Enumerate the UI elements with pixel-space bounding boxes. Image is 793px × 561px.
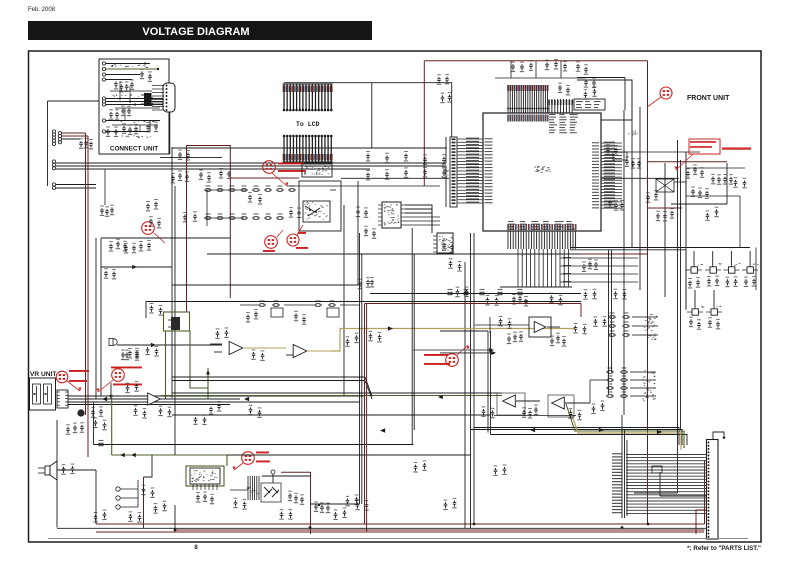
cluster khaki junction [345, 331, 381, 347]
IC U1 inside labels left [485, 138, 493, 203]
cluster front unit G [646, 177, 747, 221]
opamp U9 [503, 395, 540, 407]
cluster right of U1 B [625, 156, 641, 168]
wire J6 bus [56, 163, 388, 169]
opamp U5 [268, 345, 330, 358]
cluster x200 y410 [193, 401, 261, 425]
wire green connect [106, 68, 158, 70]
IC U2 regulator [378, 202, 405, 228]
cluster opamp U4 parts [215, 327, 264, 360]
svg-text:VOLTAGE DIAGRAM: VOLTAGE DIAGRAM [142, 26, 249, 38]
key group K5 [687, 306, 704, 330]
maroon pair x365 [365, 304, 367, 533]
IC U1 bottom bus [500, 249, 638, 287]
connect unit label [110, 146, 158, 153]
transformer T1 [141, 93, 152, 106]
cluster bottom-center B [314, 502, 330, 514]
power rail maroon opamp [474, 233, 581, 524]
wire long y455-ext [227, 454, 470, 456]
jack J10 [109, 339, 222, 361]
cluster opamp U6 parts [125, 381, 171, 418]
red annot af-level circle [96, 367, 142, 393]
connector J9 wires [612, 453, 707, 513]
cluster mid y170 [171, 168, 231, 183]
opamp U10 [552, 397, 590, 409]
wire vertical pair x610 [609, 250, 612, 394]
wire connect rows [106, 64, 150, 80]
page number [194, 545, 198, 551]
cluster bottom-center C [345, 494, 358, 506]
potentiometer VR1 [33, 384, 41, 404]
power rail maroon mid [187, 146, 231, 313]
cluster x368 y283 [358, 277, 374, 289]
key group K6 [706, 306, 722, 330]
backlight driver inner [303, 201, 330, 222]
connector CN right [163, 83, 175, 154]
green loop arrows [120, 453, 136, 457]
connector J9 bottom wires [656, 523, 705, 525]
IC U3 small [433, 233, 453, 253]
maroon y303 [365, 303, 582, 305]
transformer T2 comb [247, 476, 260, 500]
wire long vertical C [639, 107, 641, 290]
wire above U1 [495, 61, 585, 78]
resistor row y293 [446, 289, 524, 295]
VR unit box [30, 378, 56, 410]
IC U1 part label [534, 166, 550, 173]
opamp U8 [534, 322, 560, 333]
component row y305 [240, 300, 360, 317]
potentiometer VR2 [44, 384, 52, 404]
red annot busy circle [263, 230, 283, 252]
transistor Q1 [78, 406, 103, 417]
connect unit component cluster A [114, 79, 134, 92]
cluster right of U1 C [608, 198, 624, 211]
power rail maroon frontunit [648, 162, 728, 208]
wire connect mid bus [106, 99, 164, 105]
connector J4 pin [102, 130, 105, 133]
IC U1 inside labels bottom [508, 221, 575, 230]
cluster bottom-center D [279, 509, 292, 520]
key group K1 [686, 264, 703, 288]
resistor rows right [608, 312, 658, 339]
svg-text:*; Refer to "PARTS LIST.": *; Refer to "PARTS LIST." [687, 545, 761, 552]
cluster below VR [66, 418, 107, 435]
khaki signal line [330, 326, 575, 351]
cluster right of U1 D [686, 164, 704, 178]
cap grid mid [366, 151, 446, 180]
connector jack J8 [271, 470, 275, 483]
wire long vertical B [631, 80, 633, 247]
cluster right gap of U1 top [584, 77, 596, 88]
wire key bus [570, 248, 750, 309]
connect unit junction dots [119, 62, 146, 105]
red annot power circle [56, 370, 89, 391]
IC X2 box [574, 99, 605, 110]
wire bottom left risers [57, 420, 175, 530]
IC U1 bottom comb [507, 224, 576, 249]
signal bundle green [161, 393, 502, 396]
connector VR [57, 390, 68, 408]
wire long y415 [172, 415, 490, 455]
date label [28, 7, 56, 13]
IC U1 inside labels right [592, 142, 599, 208]
wire y238 [96, 238, 230, 399]
power rail maroon top long [424, 61, 647, 186]
wire backlight chain [207, 190, 336, 226]
cluster above X2 [558, 83, 597, 100]
wire U8 left [475, 317, 529, 333]
IC U1 main body [483, 113, 601, 231]
cluster bottom-left edge [93, 510, 106, 523]
cluster mid area B [145, 345, 158, 357]
wire left feed [48, 101, 100, 186]
wire long vertical A [623, 110, 625, 415]
red annot sp circle [232, 452, 270, 471]
signal bundle green right [566, 404, 684, 448]
transistor pair Q2 Q3 [261, 483, 281, 502]
wire y301 long [146, 302, 581, 319]
wire front unit feeds [622, 152, 745, 196]
IC U1 top pin comb2 [548, 99, 573, 113]
green arrow mid [438, 395, 443, 399]
connector To-LCD lower [283, 135, 333, 162]
connector J5 block [52, 130, 61, 146]
signal bundle right blacks [471, 428, 688, 446]
connect unit label smudges [111, 64, 155, 138]
power rail maroon right vertical [647, 61, 649, 525]
red annot 5-6 circle [648, 87, 672, 107]
cluster right of U1 A [606, 144, 618, 155]
key group K2 [705, 263, 722, 287]
cluster near U2 [356, 207, 376, 239]
wire J9 mid join [652, 466, 707, 496]
green amp box [186, 466, 224, 486]
speaker SP1 [38, 461, 57, 480]
arrow down mid [109, 383, 113, 399]
IC U7 audio amp [190, 468, 220, 490]
component chain backlight B [204, 207, 301, 219]
parts list note [687, 545, 761, 552]
cluster mid-bottom A [413, 460, 426, 472]
power rail maroon bottom bus A [96, 523, 705, 525]
wire y148 long [172, 147, 447, 149]
wire J5 out [62, 133, 88, 139]
cluster top-left of U1 [437, 74, 452, 103]
key group K3 [724, 263, 741, 287]
cluster speaker parts [61, 464, 74, 475]
cluster mid-left A [109, 239, 127, 252]
cluster under J6 [100, 169, 114, 217]
wire mid box [172, 147, 358, 415]
olive box G1 [164, 312, 190, 331]
cluster center C [549, 293, 562, 306]
wire pair x412 [412, 228, 414, 445]
gray bus y538 [48, 538, 748, 540]
cluster right rows feed [593, 316, 606, 327]
wire x93 drop [94, 402, 414, 446]
wire pair x360 [311, 233, 362, 506]
cluster bus right labels [563, 257, 598, 282]
IC U1 inside labels top-right [549, 114, 578, 133]
red annot tx circle [287, 225, 308, 249]
IC U1 right pins [601, 142, 622, 209]
bus bottom black A [57, 527, 707, 529]
wire lcd-top feed [284, 83, 452, 149]
wire tx y350 [413, 348, 494, 352]
signal bundle khaki right [570, 409, 681, 450]
cluster mid-left E [146, 199, 158, 211]
power rail maroon vertical left [86, 133, 89, 457]
cluster bottom extra [333, 500, 368, 520]
wire y157 [160, 157, 222, 159]
power rail maroon amp box [144, 472, 311, 534]
connector J3 pin [102, 119, 105, 122]
signal bundle main [68, 396, 365, 405]
IC U1 left pins [457, 138, 483, 203]
IC U1 top pin comb [507, 85, 549, 122]
connector J9 hook [713, 432, 725, 440]
cluster mid-left D [149, 211, 197, 228]
connector CN-left-of-U1 [441, 137, 457, 207]
cluster right of U1 F [691, 186, 709, 198]
connector J1 pins [102, 62, 105, 81]
opamp U8 box [529, 317, 551, 337]
power rail maroon right mid [570, 253, 648, 255]
wire long vertical F [470, 233, 472, 528]
connector To-LCD upper [283, 84, 333, 111]
box lower-right x488 [440, 331, 491, 435]
wire speaker [57, 469, 96, 471]
wire U9 box [494, 393, 576, 417]
svg-text:VR UNIT: VR UNIT [30, 371, 56, 378]
wire U1 right-top jog [577, 78, 632, 121]
cluster phones parts [128, 485, 166, 523]
wire bottom-center [230, 476, 310, 490]
red annot box radio [674, 139, 751, 170]
wire connect low [106, 121, 160, 132]
cluster mid-left C [104, 268, 116, 279]
cluster mid-bottom C [493, 464, 506, 475]
capacitor row above U1 [511, 59, 588, 75]
cluster bottom-center A [288, 491, 304, 505]
cluster under U3 [442, 240, 469, 297]
svg-text:Feb. 2008: Feb. 2008 [28, 7, 56, 13]
red annot backlight text [272, 163, 306, 187]
wire right edge verticals [740, 196, 756, 290]
cluster left small [79, 138, 93, 150]
cluster U8 parts [498, 316, 586, 347]
label FRONT UNIT [687, 95, 730, 102]
connect unit component cluster C [122, 123, 138, 135]
svg-text:FRONT UNIT: FRONT UNIT [687, 95, 730, 102]
red annot backlight circle [263, 161, 276, 174]
front unit box lines [671, 163, 727, 204]
cluster under audio [196, 492, 247, 510]
component chain backlight A [204, 185, 296, 204]
cluster center E [613, 289, 626, 300]
cluster y305 drops [246, 309, 306, 325]
wire long vertical D [678, 140, 681, 430]
bus bottom maroon B [96, 531, 704, 533]
connector phones [116, 480, 138, 509]
wire maroon connector risers [696, 510, 707, 534]
connector J9 bus [622, 415, 627, 518]
svg-text:CONNECT UNIT: CONNECT UNIT [110, 146, 158, 153]
crystal X1 [656, 179, 674, 192]
power rail maroon backlight [230, 177, 299, 179]
cluster right of U1 E [711, 174, 733, 185]
wire y267 arrow [101, 265, 172, 269]
wires connect to CN [152, 86, 164, 111]
wire U2 fanout [405, 205, 440, 233]
cluster U9 parts [481, 401, 604, 421]
red annot circle mid-left [142, 222, 165, 243]
wire y178 right [341, 163, 679, 297]
cluster mid-left B [124, 240, 151, 253]
opamp U6 [148, 393, 172, 405]
wire J7 out [56, 185, 96, 189]
connect unit cluster D [106, 69, 158, 137]
title bar [28, 21, 372, 40]
green loop [112, 455, 227, 466]
cluster maroon corner [178, 150, 190, 161]
connector J9 pins [708, 442, 710, 538]
connector J2 pins [102, 97, 105, 106]
wire olive drop [166, 331, 210, 399]
connect unit box [99, 59, 169, 154]
wire J9 upper join [634, 430, 678, 493]
connector J9 body [707, 440, 719, 540]
key group K4 [742, 264, 759, 287]
wire long vertical E [685, 152, 687, 310]
red annot tx27 circle [424, 345, 470, 366]
wire J6 ext [388, 137, 446, 207]
wire mid horizontals [207, 186, 581, 294]
cluster center D [583, 289, 596, 300]
green loop vertical [111, 396, 113, 456]
backlight driver top box [302, 164, 332, 177]
label VR UNIT [30, 371, 56, 378]
cluster center B [512, 293, 528, 306]
wire bottom-left box [96, 455, 152, 524]
signal bundle arrows [102, 397, 662, 434]
junction dots bottom [174, 523, 650, 532]
cluster mid area A [121, 348, 139, 361]
svg-text:To LCD: To LCD [296, 121, 320, 128]
connector J6 block [52, 160, 55, 170]
connector J7 block [52, 183, 55, 190]
wire tx row [172, 351, 496, 399]
resistor rows right lower [606, 367, 656, 401]
component box right of U1 [613, 131, 638, 161]
connect unit extra wires [110, 68, 160, 132]
backlight driver box [299, 181, 341, 231]
connect unit component cluster B [109, 106, 131, 120]
cluster center A [485, 295, 498, 306]
power rail maroon bottom bus B [175, 460, 705, 530]
cluster mid-bottom B [443, 498, 456, 510]
label To LCD [296, 121, 320, 128]
wire opamp feed right [590, 380, 606, 403]
wire long vertical G [464, 262, 466, 528]
opamp U4 [210, 342, 268, 355]
